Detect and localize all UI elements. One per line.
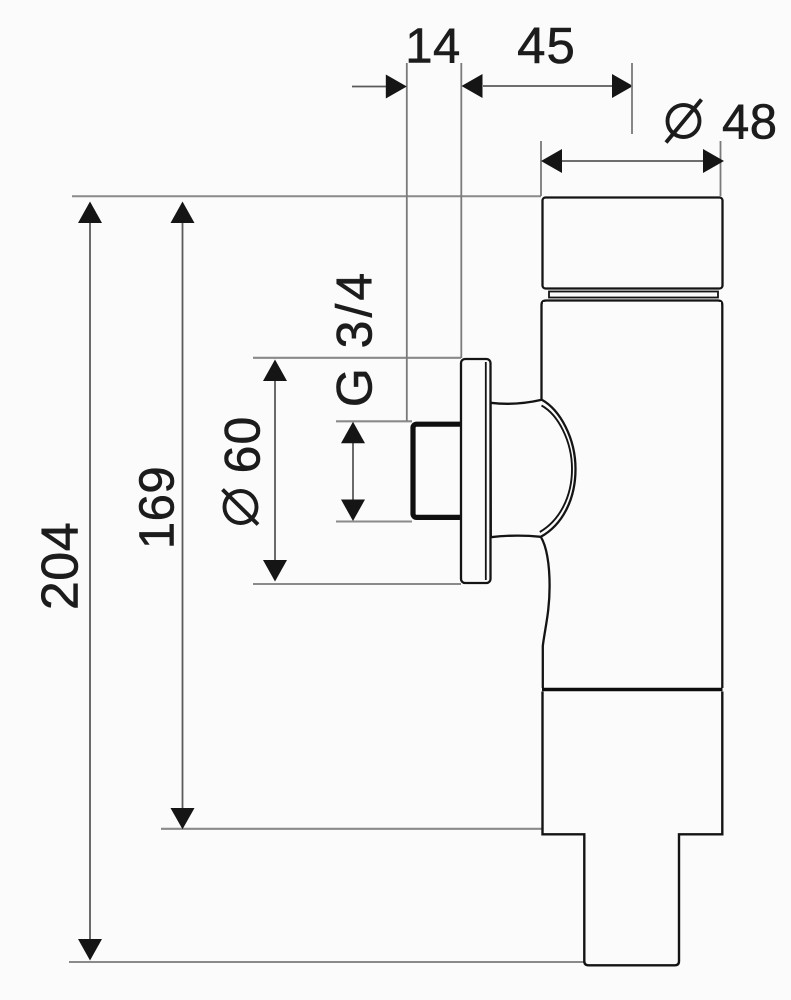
valve main body — [542, 301, 723, 689]
45 arrow pointing left — [462, 74, 483, 98]
dimension G3/4 vertical line — [352, 440, 354, 503]
dimension 169 vertical line — [182, 220, 184, 811]
svg-text:45: 45 — [517, 17, 576, 74]
svg-text:169: 169 — [131, 466, 185, 549]
centerline tick — [631, 63, 633, 134]
body fill (between edges) — [543, 302, 721, 688]
dimension 14 right extension line — [460, 63, 462, 358]
dia48 extension line right — [720, 141, 722, 196]
dimension dia60 vertical line — [274, 378, 276, 563]
dia48 arrow pointing right — [703, 149, 724, 173]
flange rim line — [485, 362, 487, 580]
lower body section and outlet pipe — [543, 692, 723, 966]
svg-text:G 3/4: G 3/4 — [327, 270, 383, 407]
dimension 204 arrow down — [78, 939, 102, 961]
ring band under cap — [549, 292, 718, 298]
svg-text:60: 60 — [215, 416, 271, 474]
dimension 169 arrow up — [171, 202, 195, 224]
dimension 204 vertical line — [89, 220, 91, 942]
45 dimension line — [483, 85, 613, 87]
label dia 60: diameter symbol (rotated) — [225, 491, 257, 523]
bell housing — [491, 400, 576, 537]
push button — [413, 424, 466, 517]
dimension 204 arrow up — [78, 202, 102, 224]
dia60 arrow up — [263, 360, 287, 382]
flange disc — [461, 359, 491, 583]
collar S-curve below bell — [541, 537, 550, 688]
svg-text:204: 204 — [32, 522, 90, 610]
dimension 14 left extension line — [406, 63, 408, 421]
G3/4 arrow down — [341, 500, 365, 522]
valve top cap — [543, 198, 723, 289]
extension line top (y196 from 204/169 dims to body) — [72, 195, 541, 197]
dimension 169 arrow down — [171, 808, 195, 829]
bold separation line — [542, 688, 723, 692]
extension line bottom (204 dim to outlet pipe) — [69, 961, 584, 963]
45 arrow pointing right — [612, 74, 633, 98]
dia48 dimension line — [562, 160, 703, 162]
extension line 169 bottom (to body) — [161, 828, 542, 830]
extension lines for G 3/4 (button top/bottom) — [336, 420, 412, 422]
dia48 arrow pointing left — [541, 149, 562, 173]
bell inner contour line — [540, 406, 572, 533]
svg-text:48: 48 — [722, 96, 778, 150]
extension lines for dia 60 (flange top/bottom) — [253, 357, 461, 359]
dia60 arrow down — [263, 560, 287, 582]
svg-text:14: 14 — [405, 20, 461, 74]
dia48 extension line left — [540, 141, 542, 196]
label dia 48: diameter symbol — [668, 105, 700, 137]
14 arrow pointing right — [386, 75, 407, 99]
G3/4 arrow up — [341, 422, 365, 444]
14 arrow tail left — [352, 86, 387, 88]
